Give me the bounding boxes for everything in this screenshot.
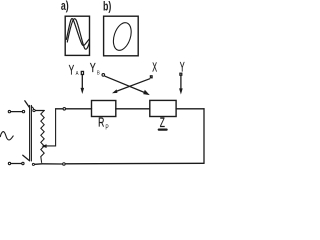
winding top hook	[31, 107, 33, 110]
svg-text:a): a)	[61, 0, 69, 13]
resistor Rp	[92, 101, 116, 117]
wire Rp to Z	[116, 108, 150, 110]
wire winding-top to zigzag	[36, 110, 45, 112]
arrow X	[116, 79, 149, 92]
node K2 output terminal bottom	[63, 163, 66, 166]
wire Z to right corner	[176, 108, 204, 110]
wire bottom (right part)	[66, 162, 204, 165]
wiper arrow	[46, 109, 56, 146]
switch blade bottom	[23, 155, 29, 160]
autotransformer winding (zigzag)	[41, 111, 44, 163]
svg-text:Y: Y	[69, 63, 75, 77]
oscillogram box a	[65, 16, 89, 55]
arrow YA	[81, 75, 83, 88]
winding bottom terminal	[32, 163, 34, 165]
switch blade top	[25, 101, 29, 107]
wire top (wiper to Rp)	[56, 108, 63, 110]
terminal Y	[180, 73, 182, 75]
input terminal pair top	[8, 110, 10, 112]
svg-text:Y: Y	[90, 61, 97, 75]
oscillogram box b	[104, 16, 139, 56]
waveform trace 1 (box a)	[66, 19, 89, 46]
winding top terminal	[33, 109, 35, 111]
wire right side	[203, 109, 205, 164]
AC source	[0, 132, 13, 140]
node K1 output terminal top	[63, 108, 66, 111]
wire K1 to Rp	[66, 108, 91, 110]
svg-text:R: R	[98, 116, 104, 130]
svg-text:b): b)	[103, 0, 112, 14]
wire winding bottom to K2	[35, 163, 42, 166]
transformer core	[29, 105, 31, 161]
arrow YB	[105, 76, 145, 93]
svg-text:X: X	[152, 61, 157, 75]
svg-text:B: B	[97, 70, 100, 77]
waveform trace 2 (box a)	[67, 19, 89, 49]
wire bottom (left part)	[42, 163, 62, 165]
Lissajous ellipse (box b)	[110, 20, 134, 52]
svg-text:P: P	[105, 124, 108, 132]
impedance Z	[150, 100, 176, 116]
label Z underline	[159, 129, 167, 131]
arrow Y	[180, 76, 182, 89]
terminal YA	[81, 71, 83, 74]
terminal X	[150, 76, 152, 78]
input terminal pair bottom	[8, 162, 10, 164]
terminal YB	[102, 74, 105, 77]
svg-text:A: A	[76, 71, 79, 78]
